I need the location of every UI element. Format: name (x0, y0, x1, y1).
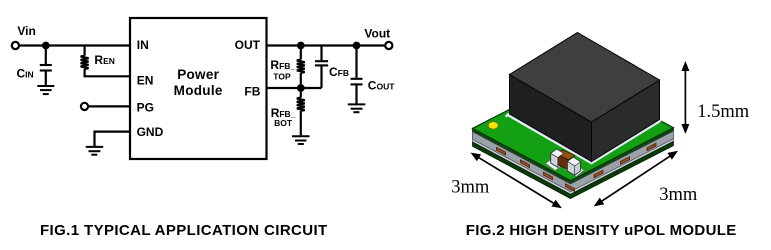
chip capacitor: white pad right (565, 163, 585, 176)
silkscreen corner segment (behind block, left) (506, 112, 513, 116)
chip capacitor: left terminal (551, 149, 564, 167)
wire GND pin to ground (95, 132, 131, 146)
wire PG terminal to PG pin (88, 105, 130, 107)
svg-text:COUT: COUT (368, 79, 395, 93)
terminal PG (81, 103, 88, 110)
wire COUT bottom leg (355, 85, 357, 103)
svg-text:Vout: Vout (364, 27, 390, 41)
wire OUT to Vout (267, 44, 386, 46)
molded block: left face (510, 75, 592, 162)
svg-text:PG: PG (137, 100, 154, 114)
svg-text:Power: Power (177, 67, 219, 82)
castellation pad SE-3 (647, 143, 656, 150)
wire RFB_BOT bottom lead to ground (300, 111, 302, 136)
wire RFB_BOT top lead (300, 88, 302, 98)
node junction dot (OUT at RFB_TOP) (297, 42, 305, 50)
resistor RFB_BOT (297, 98, 305, 111)
svg-text:BOT: BOT (274, 118, 293, 128)
svg-text:GND: GND (137, 125, 164, 139)
wire FB pin to CFB (267, 87, 322, 89)
terminal Vout (385, 42, 392, 49)
PCB side: gray castellation band (473, 131, 674, 192)
wire RFB_TOP top lead (300, 46, 302, 60)
PCB side: light gray lip (473, 139, 674, 195)
svg-text:FB: FB (244, 85, 260, 99)
wire CFB bottom leg (320, 66, 322, 88)
chip capacitor: body C (top face) (557, 150, 575, 160)
ground below GND pin (86, 147, 104, 155)
ground below C_OUT (348, 104, 366, 112)
svg-text:IN: IN (137, 38, 149, 52)
PCB side: dark green edge band (473, 128, 674, 184)
ground below C_IN (37, 86, 54, 94)
dimension arrow 3mm (right, along SE edge) (594, 151, 678, 207)
castellation pad SW-1 (497, 147, 506, 155)
silkscreen outline front (V around block base) (507, 114, 661, 163)
capacitor C_OUT plates (351, 79, 363, 85)
PCB side: bottom dark green layer (473, 141, 674, 198)
PCB top face (green) (473, 76, 674, 181)
chip capacitor: white pad left (546, 159, 563, 171)
ground below RFB_BOT (292, 136, 310, 144)
svg-text:FIG.2 HIGH DENSITY uPOL MODULE: FIG.2 HIGH DENSITY uPOL MODULE (466, 222, 737, 239)
wire COUT top leg (355, 46, 357, 78)
castellation pad SW-3 (544, 172, 553, 180)
wire REN bottom lead to EN pin (85, 69, 130, 76)
svg-text:Vin: Vin (17, 24, 35, 38)
molded block: right face (592, 80, 660, 162)
terminal Vin (12, 42, 19, 49)
wire REN top lead (83, 46, 85, 56)
wire CIN bottom leg (45, 72, 47, 86)
dimension arrow 1.5mm (vertical double arrow) (681, 61, 689, 134)
capacitor C_IN plates (40, 65, 52, 71)
capacitor C_FB plates (315, 61, 328, 65)
chip capacitor: body C (front face) (557, 154, 569, 170)
svg-text:TOP: TOP (273, 71, 291, 81)
wire Vin to IN pin (19, 44, 130, 46)
svg-text:3mm: 3mm (451, 177, 490, 197)
svg-text:OUT: OUT (235, 38, 261, 52)
dimension arrow 3mm (left, along SW edge) (471, 153, 563, 209)
node junction dot (Vin line / CIN) (42, 42, 50, 50)
castellation pad SE-2 (621, 157, 630, 164)
resistor REN (81, 56, 89, 69)
castellation pad SW-2 (521, 160, 530, 168)
fiducial yellow dot (488, 122, 498, 129)
resistor RFB_TOP (297, 60, 305, 73)
svg-text:Module: Module (174, 83, 223, 98)
svg-text:3mm: 3mm (659, 185, 698, 205)
node junction dot (OUT at COUT) (353, 42, 361, 50)
Power Module box U1 (130, 18, 267, 159)
chip capacitor: right terminal (568, 157, 581, 175)
svg-text:CIN: CIN (17, 67, 34, 81)
wire RFB_TOP bottom lead (300, 73, 302, 88)
wire CFB top leg (320, 46, 322, 61)
svg-text:REN: REN (94, 53, 114, 67)
node junction dot (FB node) (297, 84, 305, 92)
svg-text:1.5mm: 1.5mm (697, 102, 750, 122)
svg-text:FIG.1 TYPICAL APPLICATION CIRC: FIG.1 TYPICAL APPLICATION CIRCUIT (40, 222, 328, 239)
svg-text:EN: EN (137, 73, 154, 87)
molded block: top face (510, 33, 660, 123)
svg-text:CFB: CFB (329, 65, 349, 79)
castellation pad SW-4 (566, 184, 575, 192)
castellation pad SE-1 (594, 170, 603, 177)
svg-text:RFB_: RFB_ (270, 58, 295, 72)
wire CIN top leg (45, 46, 47, 65)
